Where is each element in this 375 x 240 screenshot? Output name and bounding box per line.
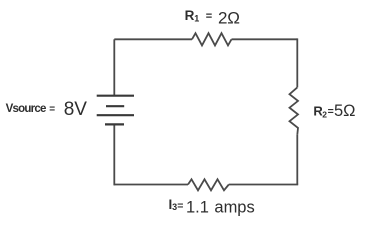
wire bottom-right horizontal — [229, 184, 298, 186]
svg-text:Vsource: Vsource — [6, 103, 46, 115]
wire bottom-left horizontal — [114, 184, 188, 186]
wire right upper vertical — [296, 38, 298, 87]
wire left upper vertical — [113, 39, 115, 95]
svg-text:8V: 8V — [64, 99, 88, 120]
svg-text:R: R — [185, 8, 195, 23]
resistor R1 — [192, 33, 232, 45]
svg-text:1.1: 1.1 — [186, 198, 209, 216]
resistor R3 — [188, 179, 229, 190]
wire left lower vertical — [113, 124, 115, 185]
svg-text:5Ω: 5Ω — [334, 102, 356, 120]
battery Vsource — [97, 96, 134, 125]
svg-text:amps: amps — [214, 198, 254, 216]
svg-text:=: = — [177, 200, 183, 212]
svg-text:1: 1 — [194, 14, 199, 24]
svg-text:Ω: Ω — [227, 8, 240, 27]
wire top-left horizontal — [114, 38, 192, 40]
resistor R2 — [290, 87, 299, 134]
wire top-right horizontal — [232, 38, 298, 40]
svg-text:2: 2 — [322, 109, 327, 119]
svg-text:=: = — [49, 104, 55, 115]
svg-text:=: = — [328, 105, 334, 117]
svg-text:2: 2 — [218, 8, 227, 27]
wire right lower vertical — [296, 135, 298, 185]
svg-text:=: = — [206, 10, 212, 22]
